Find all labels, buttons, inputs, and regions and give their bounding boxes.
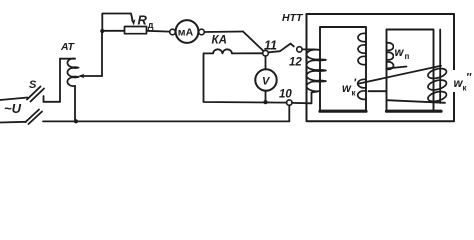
label wp — [394, 44, 413, 61]
terminal 12 — [297, 47, 302, 52]
svg-text:д: д — [148, 20, 154, 30]
wire AT coil bottom lead — [74, 86, 76, 121]
autotransformer AT winding — [67, 59, 78, 87]
svg-text:КА: КА — [212, 35, 227, 47]
wire KA loop left side — [204, 53, 287, 102]
winding wk'' inner rail — [439, 30, 441, 104]
winding wk'' turn 3 — [427, 90, 448, 103]
node junction dot V-bottom — [263, 100, 267, 104]
winding wp left-rail arcs — [358, 33, 366, 99]
wire junction to resistor — [102, 30, 124, 32]
wire tap riser to Rd junction — [101, 31, 103, 76]
wire terminal 10 into box — [292, 93, 312, 104]
wire diagonal A — [358, 66, 441, 84]
wire resistor to mA — [147, 30, 170, 33]
milliammeter mA right terminal — [199, 29, 205, 35]
svg-text:′: ′ — [354, 77, 357, 89]
wire bus riser — [288, 105, 290, 121]
node junction dot at Rd — [100, 29, 104, 33]
svg-text:″: ″ — [467, 72, 473, 84]
Rd wiper arrowhead — [131, 19, 136, 25]
svg-text:НТТ: НТТ — [282, 12, 304, 24]
svg-text:S: S — [29, 79, 37, 91]
winding wk' on left leg — [302, 49, 326, 92]
terminal 11 — [263, 50, 269, 56]
wire supply line 2 (lower) — [0, 121, 26, 124]
wire bottom bus — [43, 120, 289, 122]
svg-text:w: w — [395, 47, 405, 59]
svg-text:R: R — [138, 13, 148, 28]
svg-text:12: 12 — [289, 57, 302, 69]
winding wp right-rail arcs — [387, 43, 394, 70]
voltmeter V body — [255, 69, 276, 90]
wire wiper loop of Rd — [102, 14, 133, 32]
wire supply line 1 (upper) — [0, 98, 28, 101]
switch S blade pole 2 — [26, 110, 43, 125]
switch S fixed contact 1 — [44, 96, 61, 102]
wire bottom link C — [387, 100, 445, 103]
milliammeter mA left terminal — [170, 29, 176, 35]
core window 2 — [387, 30, 434, 112]
AT tap arrow — [81, 75, 102, 77]
core window 1 — [320, 27, 366, 112]
relay coil KA branch wire left — [232, 52, 263, 54]
svg-text:~U: ~U — [4, 101, 22, 116]
winding wk'' turn 2 — [427, 78, 448, 91]
label wk'' — [451, 70, 474, 93]
svg-text:АТ: АТ — [60, 41, 76, 53]
relay coil KA — [213, 49, 232, 53]
svg-text:11: 11 — [264, 39, 277, 53]
box HTT outline — [307, 14, 455, 121]
wire mA to bend — [204, 31, 243, 34]
node junction dot on bottom bus — [74, 119, 78, 123]
wire riser to AT — [59, 59, 61, 102]
voltmeter V top stub — [265, 56, 267, 69]
wire wp lead stub — [387, 67, 407, 69]
winding wk'' turn 1 — [427, 67, 448, 80]
switch S blade pole 1 — [27, 87, 44, 102]
wire slant down to node 11 — [243, 32, 264, 52]
label wk' — [341, 77, 359, 98]
svg-text:10: 10 — [279, 89, 292, 101]
milliammeter mA body — [176, 20, 199, 43]
terminal 10 — [287, 100, 292, 105]
svg-text:мА: мА — [178, 27, 194, 39]
voltmeter V bottom stub — [265, 91, 267, 102]
core window 1 bottom thick — [320, 110, 366, 113]
wire AT top connector — [60, 58, 75, 60]
core window 2 bottom thick — [387, 110, 442, 113]
switch blade 11-12 (open) — [268, 44, 294, 53]
wire wp bottom crossover — [369, 90, 387, 92]
svg-text:V: V — [262, 76, 271, 88]
resistor Rd body — [125, 27, 147, 34]
svg-text:w: w — [342, 83, 352, 95]
svg-text:п: п — [405, 52, 410, 61]
